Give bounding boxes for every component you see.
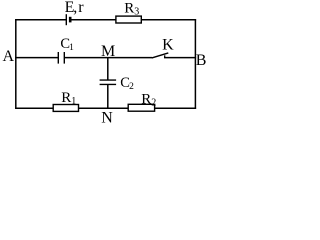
svg-text:M: M bbox=[101, 43, 115, 60]
svg-text:R3: R3 bbox=[124, 0, 139, 17]
wire: resistor R3 to top-right corner bbox=[141, 19, 196, 21]
wire: capacitor C1 through node M to switch K left contact bbox=[64, 57, 152, 59]
wire: capacitor C2 bottom plate down to node N bbox=[107, 84, 109, 108]
capacitor C1 left plate bbox=[57, 52, 59, 64]
switch K blade bbox=[152, 53, 169, 58]
wire: resistor R1 to node N to resistor R2 bbox=[78, 107, 128, 109]
wire: resistor R2 to bottom-right corner bbox=[154, 107, 196, 109]
svg-text:R1: R1 bbox=[61, 90, 76, 107]
switch K right contact tick bbox=[164, 55, 166, 58]
wire: top side, left corner to battery bbox=[15, 19, 66, 21]
wire: switch K to node B bbox=[164, 57, 196, 59]
battery E,r short plate bbox=[69, 17, 72, 23]
svg-text:C2: C2 bbox=[120, 75, 134, 92]
capacitor C2 bottom plate bbox=[100, 83, 117, 85]
resistor R2 body bbox=[128, 104, 154, 111]
wire: node M down to capacitor C2 top plate bbox=[107, 58, 109, 81]
svg-text:r: r bbox=[78, 0, 84, 16]
svg-text:C1: C1 bbox=[60, 36, 74, 53]
svg-text:A: A bbox=[3, 48, 15, 65]
wire: right vertical (top corner to bottom corner) bbox=[194, 19, 196, 109]
resistor R3 body bbox=[116, 16, 141, 23]
capacitor C2 top plate bbox=[100, 79, 117, 81]
wire: bottom-left corner to resistor R1 bbox=[15, 107, 53, 109]
svg-text:,: , bbox=[73, 0, 77, 16]
svg-text:K: K bbox=[162, 36, 174, 53]
battery E,r long plate bbox=[65, 14, 67, 25]
svg-text:B: B bbox=[196, 52, 207, 69]
wire: node A to capacitor C1 bbox=[15, 57, 58, 59]
resistor R1 body bbox=[53, 105, 78, 112]
capacitor C1 right plate bbox=[63, 52, 65, 64]
wire: battery to resistor R3 bbox=[70, 19, 116, 21]
svg-text:N: N bbox=[101, 110, 113, 127]
wire: left vertical (top corner to bottom corner) bbox=[15, 19, 17, 109]
svg-text:R2: R2 bbox=[141, 91, 156, 108]
